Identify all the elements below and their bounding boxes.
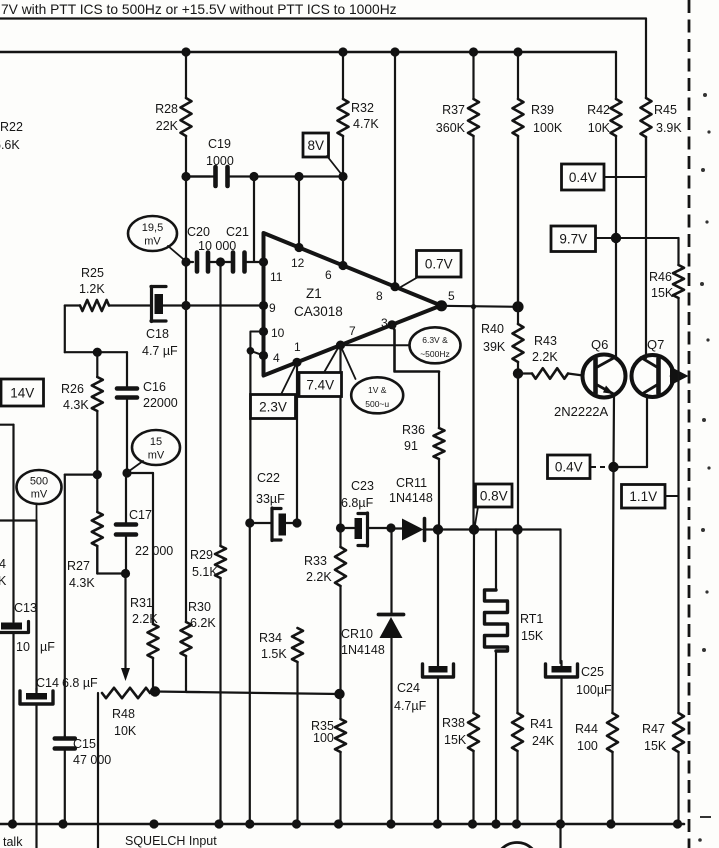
wire: R39col mid segment — [517, 136, 519, 307]
svg-text:R46: R46 — [649, 270, 672, 284]
svg-text:R40: R40 — [481, 322, 504, 336]
wire: C15 column upper — [64, 475, 66, 736]
svg-text:1.2K: 1.2K — [79, 282, 105, 296]
capacitor C17 — [125, 473, 127, 525]
svg-text:22K: 22K — [156, 119, 179, 133]
svg-text:39K: 39K — [483, 340, 506, 354]
resistor R41 — [516, 530, 518, 714]
svg-text:mV: mV — [148, 450, 165, 462]
node: bracket junction — [247, 347, 255, 355]
svg-text:1: 1 — [294, 340, 301, 354]
capacitor C20 — [186, 261, 193, 263]
node: emitter 0.4V junction — [608, 462, 618, 472]
svg-text:1N4148: 1N4148 — [389, 491, 433, 505]
node: 0.8V-R38 junction — [469, 524, 479, 534]
pin 6 — [338, 261, 347, 270]
resistor R28 — [185, 52, 187, 98]
svg-text:R22: R22 — [0, 120, 23, 134]
svg-text:R48: R48 — [112, 707, 135, 721]
svg-text:R41: R41 — [530, 717, 553, 731]
node: 0.8V-R40col junction — [512, 524, 522, 534]
wire: pin 6 feed from 8V node — [342, 177, 344, 266]
svg-text:R42: R42 — [587, 103, 610, 117]
svg-text:R28: R28 — [155, 102, 178, 116]
svg-text:12: 12 — [291, 256, 305, 270]
svg-text:2N2222A: 2N2222A — [554, 404, 609, 419]
svg-text:6.6K: 6.6K — [0, 138, 20, 152]
potentiometer R48 wiper arrow — [124, 574, 126, 670]
voltage callout 1.1V — [622, 485, 666, 509]
resistor R46 — [677, 238, 679, 265]
svg-text:C16: C16 — [143, 380, 166, 394]
svg-text:47 000: 47 000 — [73, 753, 111, 767]
node: C22 right junction — [292, 518, 301, 527]
svg-text:Q6: Q6 — [591, 337, 608, 352]
wire: pin 8 feed from bus — [394, 52, 396, 286]
capacitor C22 — [250, 522, 272, 524]
resistor R35 — [339, 694, 341, 719]
voltage callout 0.4V top — [562, 164, 605, 190]
transistor Q7 2N2222A — [632, 355, 674, 397]
svg-text:15K: 15K — [521, 629, 544, 643]
capacitor C25 — [560, 661, 562, 668]
svg-text:500: 500 — [30, 476, 48, 488]
wire: Q6 emitter — [612, 395, 615, 467]
wire: pin3 drop and jog — [392, 325, 439, 372]
svg-text:R43: R43 — [534, 334, 557, 348]
svg-text:19,5: 19,5 — [142, 222, 163, 234]
svg-text:360K: 360K — [436, 121, 466, 135]
partial circle below bus — [496, 843, 539, 848]
node: pin5-R37col crossing blob — [471, 304, 476, 309]
svg-text:0.4V: 0.4V — [555, 460, 583, 475]
svg-text:0.7V: 0.7V — [425, 257, 453, 272]
node: R29 bus junction — [214, 819, 223, 828]
svg-text:22000: 22000 — [143, 396, 178, 410]
resistor R25 — [65, 304, 80, 306]
svg-text:RT1: RT1 — [520, 612, 543, 626]
node: R44 bus junction — [606, 819, 615, 828]
svg-text:C15: C15 — [73, 737, 96, 751]
svg-text:R26: R26 — [61, 382, 84, 396]
resistor R39 — [517, 52, 519, 99]
wire: R28 to C19 node — [186, 175, 210, 177]
svg-text:R34: R34 — [259, 631, 282, 645]
pin 12 — [294, 243, 303, 252]
node: CR10 bus junction — [386, 819, 395, 828]
svg-text:C22: C22 — [257, 471, 280, 485]
node: R38 bus junction — [468, 819, 477, 828]
svg-text:2.3V: 2.3V — [259, 399, 287, 414]
svg-text:24K: 24K — [532, 734, 555, 748]
resistor R34 — [292, 628, 303, 662]
capacitor C16 — [126, 352, 128, 388]
wire: pin7 down to C23 — [339, 345, 341, 528]
transistor Q6 2N2222A — [583, 355, 626, 398]
wire: pin1 down to C22 — [296, 362, 298, 523]
capacitor C21 — [221, 261, 232, 263]
op-amp Z1 CA3018 triangle — [264, 233, 442, 376]
svg-text:5.1K: 5.1K — [192, 565, 218, 579]
node: bus-R32 junction — [338, 47, 347, 56]
node: C16-C17 junction — [122, 468, 131, 477]
pin 1 — [292, 358, 301, 367]
node: C23 right junction — [386, 523, 395, 532]
node: C24 bus junction — [433, 819, 442, 828]
node: 8V node junction — [338, 172, 347, 181]
svg-text:talk: talk — [3, 835, 23, 848]
thermistor RT1 — [495, 530, 497, 591]
svg-text:10K: 10K — [588, 121, 611, 135]
svg-text:10 000: 10 000 — [198, 239, 236, 253]
node: R33-R35 junction — [334, 689, 344, 699]
node: 9.7V junction — [611, 233, 621, 243]
svg-text:2.2K: 2.2K — [132, 612, 158, 626]
svg-text:1000: 1000 — [206, 154, 234, 168]
node: C13 bus junction — [8, 819, 17, 828]
node: bus-R39 junction — [513, 47, 522, 56]
node: R26-R27 junction — [93, 470, 102, 479]
capacitor C18 — [150, 287, 153, 322]
svg-text:R47: R47 — [642, 722, 665, 736]
svg-text:0.4V: 0.4V — [569, 170, 597, 185]
diode CR10 1N4148 — [390, 528, 392, 614]
wire: R26 top tie — [65, 351, 127, 353]
resistor R38 — [468, 713, 479, 751]
capacitor C19 — [186, 175, 216, 177]
svg-text:15K: 15K — [444, 733, 467, 747]
resistor R33 — [335, 547, 346, 586]
svg-text:9.7V: 9.7V — [559, 232, 587, 247]
wire: R30 bottom corner — [186, 686, 200, 692]
svg-text:R37: R37 — [442, 103, 465, 117]
wire: pin 12 feed from C19 node — [298, 177, 300, 249]
wire: Q7 emitter drop — [646, 395, 648, 467]
svg-text:CR11: CR11 — [396, 476, 427, 490]
node: C22col bus junction — [245, 819, 254, 828]
wire: emitter node to R44 — [613, 467, 614, 713]
node: R41 bus junction — [512, 819, 521, 828]
svg-text:100: 100 — [577, 739, 598, 753]
capacitor C15 — [64, 736, 66, 739]
svg-text:1N4148: 1N4148 — [341, 643, 385, 657]
wire: R29 column upper — [219, 262, 221, 546]
node: R26 top junction — [93, 348, 102, 357]
node: bus-pin8 junction — [390, 47, 399, 56]
capacitor C24 — [437, 661, 439, 668]
resistor R40 — [517, 307, 519, 324]
svg-text:R45: R45 — [654, 103, 677, 117]
svg-text:8: 8 — [376, 289, 383, 303]
svg-text:R31: R31 — [130, 596, 153, 610]
svg-text:CR10: CR10 — [341, 627, 373, 641]
svg-text:10: 10 — [271, 326, 285, 340]
svg-text:14V: 14V — [10, 385, 34, 400]
wire: C14 column upper — [35, 521, 37, 692]
diode CR11 1N4148 — [402, 519, 424, 541]
wire: Q7 collector — [645, 137, 647, 358]
node: C19 left junction — [181, 172, 190, 181]
svg-text:1.5K: 1.5K — [261, 647, 287, 661]
node: C20-C21 junction — [216, 257, 225, 266]
wire: 0.8V node row — [438, 528, 561, 530]
svg-text:3: 3 — [381, 316, 388, 330]
wire: title underline continuing to R45 column — [0, 17, 646, 19]
svg-text:9: 9 — [269, 301, 276, 315]
wire: bus corner down to R42 — [615, 52, 617, 99]
svg-text:4.7µF: 4.7µF — [394, 699, 427, 713]
pin 5 output node — [436, 300, 447, 311]
potentiometer R48 body — [102, 688, 150, 698]
wire: R25 left drop — [64, 306, 66, 353]
svg-text:R32: R32 — [351, 101, 374, 115]
svg-text:10K: 10K — [114, 724, 137, 738]
node: C20 left junction — [181, 257, 190, 266]
wire: Q7 emitter tie to 0.4V node — [614, 466, 648, 468]
pin 9 — [259, 301, 268, 310]
wire: ground bus — [0, 823, 684, 826]
svg-text:22 000: 22 000 — [135, 544, 173, 558]
wire: R46 column lower — [677, 376, 679, 713]
wire: C25 column below bus — [559, 824, 561, 848]
svg-text:R33: R33 — [304, 554, 327, 568]
svg-text:C21: C21 — [226, 225, 249, 239]
resistor R30 — [181, 622, 192, 656]
wire: R48 left leg — [97, 693, 99, 824]
svg-text:R36: R36 — [402, 423, 425, 437]
resistor R29 — [215, 546, 226, 578]
wire: 500mV feed entering left — [0, 519, 37, 521]
svg-text:Q7: Q7 — [647, 337, 664, 352]
pin 8 — [390, 282, 399, 291]
resistor R31 — [148, 624, 159, 658]
svg-text:C14: C14 — [36, 676, 59, 690]
svg-text:R29: R29 — [190, 548, 213, 562]
svg-text:µF: µF — [40, 640, 55, 654]
svg-text:4: 4 — [273, 351, 280, 365]
wire: R40col lower segment — [517, 374, 519, 531]
dashed page border — [688, 0, 691, 848]
callout 6.3V 500Hz — [410, 327, 461, 363]
svg-text:mV: mV — [144, 236, 161, 248]
svg-text:15K: 15K — [644, 739, 667, 753]
resistor R27 — [96, 475, 98, 512]
node: C23 left junction — [336, 523, 345, 532]
svg-text:R25: R25 — [81, 266, 104, 280]
scan artifacts right margin — [703, 93, 707, 97]
svg-text:4.7K: 4.7K — [353, 117, 379, 131]
resistor R26 — [96, 352, 98, 377]
svg-text:4.3K: 4.3K — [69, 576, 95, 590]
callout 19.5 mV — [128, 216, 177, 251]
resistor R36 — [438, 372, 440, 429]
svg-text:33µF: 33µF — [256, 492, 285, 506]
svg-text:100: 100 — [313, 731, 334, 745]
resistor R47 — [673, 713, 684, 752]
svg-text:Z1: Z1 — [306, 286, 322, 301]
svg-text:C18: C18 — [146, 327, 169, 341]
svg-text:mV: mV — [31, 489, 48, 501]
svg-text:C13: C13 — [14, 601, 37, 615]
svg-text:K: K — [0, 574, 7, 588]
svg-text:C17: C17 — [129, 508, 152, 522]
wire: C19 node wire — [254, 175, 343, 177]
svg-text:R38: R38 — [442, 716, 465, 730]
resistor R32 — [342, 52, 344, 99]
wire: pin10-pin4 bracket — [250, 332, 263, 356]
svg-text:4: 4 — [0, 557, 6, 571]
svg-text:7.4V: 7.4V — [306, 377, 334, 392]
svg-text:100µF: 100µF — [576, 683, 612, 697]
voltage callout 2.3V — [251, 395, 296, 419]
svg-text:4.7 µF: 4.7 µF — [142, 344, 178, 358]
wire: R28col C19-C20 segment — [185, 177, 187, 263]
pin 7 — [336, 341, 345, 350]
voltage callout 8V — [303, 133, 329, 157]
wire: R31 top jog — [127, 472, 153, 474]
wire: squelch input below bus — [97, 824, 99, 848]
node: bus-R37 junction — [469, 47, 478, 56]
wire: C19 node down to pin 11 — [253, 177, 255, 262]
svg-text:100K: 100K — [533, 121, 563, 135]
node: bus-R28 junction — [181, 47, 190, 56]
svg-text:C23: C23 — [351, 479, 374, 493]
voltage callout 0.7V — [417, 251, 462, 278]
node: C25 bus junction — [556, 819, 565, 828]
svg-text:7V with PTT ICS to 500Hz or +1: 7V with PTT ICS to 500Hz or +15.5V witho… — [1, 2, 397, 17]
svg-text:6: 6 — [325, 268, 332, 282]
node: R40-R43 junction — [513, 368, 523, 378]
node: C17 bottom junction — [121, 569, 130, 578]
svg-text:6.2K: 6.2K — [190, 616, 216, 630]
wire: pin5 output — [441, 306, 518, 307]
node: R34 bus junction — [292, 819, 301, 828]
svg-text:11: 11 — [270, 270, 283, 284]
svg-text:R44: R44 — [575, 722, 598, 736]
wire: Q6 collector — [615, 238, 617, 358]
node: signal-R28col junction — [181, 301, 190, 310]
wire: R27 bottom jog — [96, 546, 98, 574]
svg-text:2.2K: 2.2K — [306, 570, 332, 584]
voltage callout 0.4V bottom — [548, 455, 591, 479]
svg-text:4.3K: 4.3K — [63, 398, 89, 412]
wire: R37col to 0.8V row — [472, 307, 474, 530]
voltage callout 7.4V — [299, 373, 342, 397]
wire: R28col C20-signal segment — [185, 262, 187, 306]
node: CR11-R36-C24 junction — [433, 524, 443, 534]
svg-text:5: 5 — [448, 289, 455, 303]
capacitor C14 — [35, 688, 37, 695]
svg-text:8V: 8V — [307, 138, 324, 153]
node: RT1 bus junction — [491, 819, 500, 828]
pin 4 — [259, 351, 268, 360]
svg-text:6.8 µF: 6.8 µF — [62, 676, 98, 690]
node: R40 top junction — [512, 301, 523, 312]
node: R31 bus junction — [149, 819, 158, 828]
svg-text:C25: C25 — [581, 665, 604, 679]
svg-text:0.8V: 0.8V — [480, 488, 508, 503]
svg-text:2.2K: 2.2K — [532, 350, 558, 364]
resistor R44 — [607, 713, 618, 752]
resistor R45 — [641, 98, 652, 137]
svg-text:1V &: 1V & — [368, 385, 387, 395]
svg-text:15K: 15K — [651, 286, 674, 300]
svg-text:~500Hz: ~500Hz — [420, 349, 450, 359]
node: R47 bus junction — [673, 819, 682, 828]
wire: R26 node left tie — [65, 474, 98, 476]
svg-text:SQUELCH Input: SQUELCH Input — [125, 834, 217, 848]
svg-text:R39: R39 — [531, 103, 554, 117]
wire: R33 column — [339, 528, 341, 547]
wire: squelch row — [155, 692, 340, 695]
node: C22 left junction — [245, 518, 254, 527]
node: R48-R31 junction — [150, 686, 160, 696]
output arrow right of Q7 — [671, 375, 680, 378]
svg-text:6.8µF: 6.8µF — [341, 496, 374, 510]
voltage callout 0.8V — [476, 484, 513, 507]
resistor R43 — [518, 372, 532, 374]
svg-text:91: 91 — [404, 439, 418, 453]
wire: R38 column upper — [472, 530, 475, 714]
svg-text:C20: C20 — [187, 225, 210, 239]
wire: 0.8V row corner to C25 — [559, 530, 561, 664]
pin 3 — [387, 320, 396, 329]
pin 11 — [259, 257, 268, 266]
wire: R45 feed drop from top line — [645, 19, 647, 99]
node: C19-pin11 junction — [249, 172, 258, 181]
svg-text:6.3V &: 6.3V & — [422, 335, 448, 345]
svg-text:C24: C24 — [397, 681, 420, 695]
wire: talk feed entering left — [0, 424, 14, 426]
wire: pin 9 signal wire — [163, 304, 264, 306]
resistor R37 — [472, 52, 474, 99]
wire: C22 column to bus — [249, 523, 251, 824]
resistor R42 — [611, 99, 622, 136]
callout 500 mV — [17, 470, 62, 504]
svg-text:500~u: 500~u — [365, 399, 389, 409]
pin 10 — [259, 327, 268, 336]
svg-text:15: 15 — [150, 436, 162, 448]
wire: pins10/4 down to C22 — [249, 351, 251, 523]
wire: +V bus horizontal — [0, 51, 616, 53]
svg-text:7: 7 — [349, 324, 356, 338]
svg-text:C19: C19 — [208, 137, 231, 151]
svg-text:3.9K: 3.9K — [656, 121, 682, 135]
svg-text:R27: R27 — [67, 559, 90, 573]
callout 1V 500 — [351, 377, 403, 413]
node: R35 bus junction — [334, 819, 343, 828]
wire: talk below bus — [35, 824, 37, 848]
wire: 0.8V node down to C24 — [437, 530, 439, 662]
wire: R30 column — [185, 306, 187, 623]
voltage callout 9.7V — [551, 226, 596, 252]
svg-text:1.1V: 1.1V — [629, 489, 657, 504]
capacitor C13 — [1, 623, 22, 630]
callout 15 mV — [132, 430, 180, 465]
capacitor C23 — [341, 527, 355, 529]
node: C15 bus junction — [58, 819, 67, 828]
voltage callout 14V — [1, 379, 44, 406]
svg-text:CA3018: CA3018 — [294, 304, 343, 319]
node: C19-pin12 junction — [294, 172, 303, 181]
svg-text:R30: R30 — [188, 600, 211, 614]
svg-text:10: 10 — [16, 640, 30, 654]
